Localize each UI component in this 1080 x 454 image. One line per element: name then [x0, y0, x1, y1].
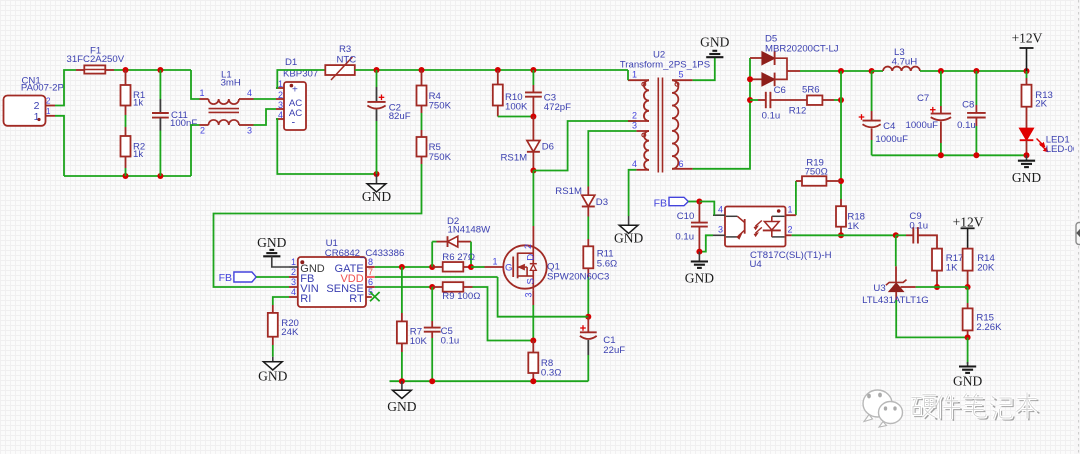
junction dot: [747, 76, 753, 82]
junction dot: [893, 232, 899, 238]
wire FB flag to U1 pin2: [256, 276, 289, 278]
resistor R12: [789, 85, 841, 117]
capacitor C9: [896, 211, 937, 249]
resistor R15: [963, 287, 1002, 337]
resistor R17: [932, 249, 963, 287]
svg-text:10K: 10K: [410, 336, 428, 347]
wire U3 anode to R15 bottom: [896, 300, 967, 337]
ground GND transformer pin4: [614, 216, 643, 246]
junction dot: [696, 249, 702, 255]
junction dot: [530, 378, 536, 384]
junction dot: [1024, 152, 1030, 158]
net flag FB: [654, 197, 689, 209]
svg-text:1: 1: [493, 256, 498, 266]
wire +12V output rail: [941, 70, 1027, 72]
svg-text:C4: C4: [883, 121, 896, 132]
svg-text:3: 3: [247, 126, 252, 136]
transformer U2: [620, 50, 710, 173]
wire R20 to ground: [272, 345, 274, 357]
wire primary ground rail: [390, 380, 589, 382]
wire U1 GATE row: [375, 266, 432, 268]
resistor R1: [121, 70, 146, 115]
power flag +12V mid: [953, 215, 984, 252]
junction dot: [938, 152, 944, 158]
resistor R11: [583, 239, 617, 277]
watermark WeChat logo: [863, 390, 903, 427]
capacitor C3: [525, 70, 571, 117]
wire reference row: [916, 286, 968, 288]
wire top bus to L1 pin1: [191, 70, 200, 99]
svg-text:+12V: +12V: [1012, 31, 1043, 46]
svg-text:GND: GND: [685, 271, 714, 286]
svg-text:R9 100Ω: R9 100Ω: [442, 291, 480, 302]
svg-text:1: 1: [632, 70, 637, 80]
wire drain node to Q1 drain: [532, 171, 534, 227]
junction dot: [399, 378, 405, 384]
svg-text:22uF: 22uF: [603, 345, 625, 356]
svg-text:4: 4: [291, 287, 296, 297]
junction dot: [530, 168, 536, 174]
junction dot: [1024, 68, 1030, 74]
svg-text:D1: D1: [285, 57, 297, 68]
inductor L3: [872, 47, 941, 71]
junction dot: [429, 264, 435, 270]
resistor R7 gate pulldown: [397, 267, 428, 381]
svg-text:FB: FB: [654, 197, 667, 209]
svg-text:3: 3: [524, 292, 534, 297]
svg-text:1000uF: 1000uF: [906, 120, 939, 131]
wire D3 to R11: [587, 217, 589, 240]
junction dot: [468, 264, 474, 270]
shunt regulator U3: [862, 235, 929, 306]
junction dot: [495, 67, 501, 73]
svg-text:1: 1: [788, 205, 793, 215]
svg-text:24K: 24K: [281, 327, 299, 338]
resistor R9: [432, 282, 480, 302]
junction dot: [399, 264, 405, 270]
svg-text:GND: GND: [257, 235, 286, 250]
wire R10 to C3 bottom: [498, 116, 534, 118]
svg-text:U4: U4: [750, 259, 763, 270]
svg-text:GND: GND: [387, 399, 416, 414]
capacitor C10: [675, 202, 707, 252]
svg-text:2: 2: [46, 97, 51, 106]
svg-text:750Ω: 750Ω: [805, 167, 828, 178]
diode D3: [555, 186, 608, 217]
svg-text:3: 3: [291, 277, 296, 287]
resistor R8: [528, 341, 561, 382]
svg-text:SPW20N60C3: SPW20N60C3: [547, 272, 609, 283]
wire R9 to source node: [473, 287, 534, 341]
svg-text:G: G: [505, 262, 512, 273]
wire CN1 pin2 to fuse F1: [55, 70, 76, 106]
svg-text:-: -: [292, 117, 296, 129]
capacitor C1: [580, 317, 625, 382]
svg-text:1k: 1k: [133, 149, 143, 160]
wire bottom AC rail: [64, 175, 191, 177]
wire R1 to R2: [125, 115, 127, 127]
svg-text:3mH: 3mH: [221, 78, 241, 89]
junction dot: [374, 67, 380, 73]
svg-text:4: 4: [278, 110, 283, 120]
svg-text:2: 2: [632, 110, 637, 120]
svg-text:472pF: 472pF: [544, 102, 571, 113]
transistor Q1: [493, 244, 610, 298]
junction dot: [965, 284, 971, 290]
junction dot: [374, 171, 380, 177]
ground GND R20: [258, 357, 287, 384]
capacitor C6: [750, 85, 807, 121]
optocoupler U4: [713, 205, 832, 271]
svg-text:CT817C(SL)(T1)-H: CT817C(SL)(T1)-H: [750, 250, 832, 261]
wire R5 to U1 VIN: [214, 164, 422, 287]
svg-text:RS1M: RS1M: [501, 153, 528, 164]
resistor R13: [1022, 71, 1053, 128]
junction dot: [530, 338, 536, 344]
wire D1 minus to primary GND rail: [276, 119, 377, 174]
junction dot: [123, 173, 129, 179]
LED LED1: [1020, 128, 1080, 155]
junction dot: [838, 68, 844, 74]
ground GND U3: [953, 337, 982, 388]
svg-text:FB: FB: [219, 272, 232, 284]
svg-text:0.1u: 0.1u: [762, 111, 781, 122]
capacitor C2: [367, 70, 410, 122]
fuse F1: [67, 46, 125, 74]
watermark text: [912, 393, 1040, 421]
svg-text:4: 4: [632, 159, 637, 169]
junction dot: [419, 67, 425, 73]
svg-text:3: 3: [632, 121, 637, 131]
wire R4 to R5: [421, 113, 423, 130]
ic U1 CR6842: [289, 238, 404, 307]
junction dot: [838, 232, 844, 238]
junction dot: [429, 284, 435, 290]
junction dot: [585, 314, 591, 320]
resistor R5: [417, 130, 452, 164]
svg-text:+12V: +12V: [953, 215, 984, 230]
net flag FB at U1: [219, 272, 257, 284]
svg-text:0.1u: 0.1u: [957, 120, 976, 131]
capacitor C8: [957, 71, 986, 155]
svg-text:S: S: [526, 278, 537, 284]
resistor R4: [417, 70, 452, 113]
svg-text:U3: U3: [873, 283, 885, 294]
diode D2: [432, 216, 491, 267]
junction dot: [157, 67, 163, 73]
wire FB node to U4 pin4: [699, 202, 714, 216]
svg-text:R6 27Ω: R6 27Ω: [442, 252, 475, 263]
ground GND primary: [362, 174, 391, 204]
svg-text:0.1u: 0.1u: [675, 231, 694, 242]
wire transformer pin5 to ground: [693, 58, 715, 81]
ui panel edge: [1074, 0, 1080, 454]
svg-text:0.1u: 0.1u: [441, 336, 460, 347]
svg-text:1000uF: 1000uF: [875, 134, 908, 145]
wire U1 VDD row: [375, 276, 498, 278]
svg-text:3: 3: [718, 225, 723, 235]
svg-text:2: 2: [278, 90, 283, 100]
connector CN1: [4, 76, 64, 126]
svg-text:2.26K: 2.26K: [976, 322, 1002, 333]
capacitor C4: [859, 71, 908, 155]
wire L1 pin3 to D1 pin3: [254, 109, 277, 125]
svg-text:GND: GND: [362, 189, 391, 204]
wire D5 output to L3: [800, 70, 872, 72]
wire R2 to bottom AC rail: [125, 168, 127, 176]
svg-text:C7: C7: [917, 93, 929, 104]
wire top AC bus: [114, 69, 191, 71]
svg-text:GND: GND: [1012, 170, 1041, 185]
svg-text:31FC2A250V: 31FC2A250V: [67, 54, 125, 65]
svg-text:20K: 20K: [977, 262, 995, 273]
svg-text:5.6Ω: 5.6Ω: [597, 259, 618, 270]
wire U1 RI to R20: [273, 297, 289, 305]
wire D1 plus output to R3: [276, 70, 325, 88]
svg-text:6: 6: [368, 277, 373, 287]
junction dot: [157, 173, 163, 179]
svg-text:3: 3: [278, 100, 283, 110]
wire transformer pin3 to D3: [588, 131, 636, 187]
resistor R6: [432, 252, 475, 272]
svg-text:RS1M: RS1M: [555, 186, 582, 197]
wire transformer pin6 to rectifier D5: [693, 58, 750, 169]
svg-text:C10: C10: [677, 211, 695, 222]
svg-text:1: 1: [291, 257, 296, 267]
wire U1 SENSE row: [375, 286, 432, 288]
svg-text:C6: C6: [774, 85, 786, 96]
svg-text:1K: 1K: [847, 221, 859, 232]
wire bottom AC rail to L1 pin2: [191, 125, 200, 176]
wire transformer pin4 to ground: [629, 170, 637, 216]
svg-text:6: 6: [679, 159, 684, 169]
svg-text:82uF: 82uF: [389, 111, 411, 122]
svg-text:D3: D3: [596, 197, 608, 208]
bridge rectifier D1: [276, 57, 318, 130]
wire R11 to VDD node: [587, 277, 589, 317]
svg-text:2K: 2K: [1035, 99, 1047, 110]
resistor R10: [493, 70, 528, 117]
junction dot: [429, 378, 435, 384]
resistor R18: [836, 199, 865, 235]
wire secondary ground rail: [872, 154, 1027, 156]
svg-text:PA007-2P: PA007-2P: [21, 82, 64, 93]
wire CN1 pin1 to bottom AC rail: [55, 116, 64, 176]
resistor R2: [121, 127, 146, 168]
wire U4 pin3 to C10 ground: [699, 235, 713, 251]
thermistor R3 NTC: [325, 44, 356, 80]
svg-text:GND: GND: [953, 374, 982, 389]
svg-text:750K: 750K: [429, 152, 452, 163]
junction dot: [696, 199, 702, 205]
svg-text:1K: 1K: [946, 262, 958, 273]
svg-text:C8: C8: [962, 100, 974, 111]
svg-text:1: 1: [278, 79, 283, 89]
svg-text:1: 1: [46, 107, 51, 116]
dual diode D5: [750, 34, 839, 87]
svg-text:GND: GND: [258, 369, 287, 384]
svg-text:0.1u: 0.1u: [909, 220, 928, 231]
svg-text:D6: D6: [542, 142, 554, 153]
junction dot: [973, 152, 979, 158]
wire U1 pin1 to GND flag: [272, 256, 289, 267]
junction dot: [973, 68, 979, 74]
junction dot: [934, 284, 940, 290]
resistor R14: [963, 249, 996, 287]
svg-text:1k: 1k: [133, 98, 143, 109]
svg-text:100nF: 100nF: [170, 118, 197, 129]
wire top bus to C11: [159, 70, 161, 99]
wire output node down to R18: [840, 71, 842, 199]
svg-text:MBR20200CT-LJ: MBR20200CT-LJ: [765, 43, 839, 54]
resistor R20: [268, 305, 299, 345]
svg-text:5R6: 5R6: [802, 85, 820, 96]
svg-text:100K: 100K: [505, 102, 528, 113]
svg-text:D: D: [526, 254, 537, 261]
capacitor C5: [424, 287, 459, 381]
svg-text:2: 2: [291, 267, 296, 277]
junction dot: [869, 68, 875, 74]
svg-text:1: 1: [34, 111, 40, 123]
junction dot: [838, 97, 844, 103]
svg-text:750K: 750K: [429, 101, 452, 112]
junction dot: [530, 67, 536, 73]
svg-text:+: +: [292, 85, 298, 96]
wire U4 pin2 feedback row: [792, 234, 896, 236]
wire HV bus to transformer pin1: [627, 70, 629, 80]
svg-text:CR6842_C433386: CR6842_C433386: [325, 248, 404, 259]
diode D6: [501, 117, 554, 171]
wire C2 to primary GND rail: [376, 121, 378, 174]
junction dot: [838, 178, 844, 184]
svg-text:4: 4: [247, 88, 252, 98]
wire FB to C10: [688, 201, 699, 203]
svg-text:RI: RI: [300, 293, 311, 305]
capacitor C11: [152, 99, 197, 131]
svg-text:5: 5: [679, 70, 684, 80]
junction dot: [965, 334, 971, 340]
svg-text:R12: R12: [789, 106, 807, 117]
junction dot: [747, 97, 753, 103]
inductor L1: [200, 70, 254, 136]
wire L1 pin4 to D1 pin2: [254, 98, 277, 100]
junction dot: [123, 67, 129, 73]
wire gate to Q1: [471, 266, 485, 268]
junction dot: [938, 68, 944, 74]
wire C11 to bottom AC rail: [159, 131, 161, 177]
svg-text:RT: RT: [349, 293, 364, 305]
svg-text:2: 2: [788, 225, 793, 235]
svg-text:4: 4: [718, 205, 723, 215]
svg-text:0.3Ω: 0.3Ω: [541, 368, 562, 379]
ground GND output: [1012, 155, 1041, 185]
svg-text:2: 2: [523, 244, 533, 249]
svg-text:1N4148W: 1N4148W: [448, 225, 492, 236]
svg-text:NTC: NTC: [337, 54, 357, 65]
svg-text:1: 1: [200, 88, 205, 98]
resistor R19: [796, 158, 841, 216]
wire Q1 source down: [532, 290, 534, 305]
power flag +12V output: [1012, 31, 1043, 72]
svg-text:2: 2: [200, 126, 205, 136]
net flag GND above U1: [257, 235, 286, 256]
ground GND primary rail: [387, 381, 416, 414]
capacitor C7: [906, 71, 952, 155]
svg-text:4.7uH: 4.7uH: [892, 57, 918, 68]
svg-text:GND: GND: [614, 231, 643, 246]
ground GND secondary top: [700, 35, 729, 58]
wire HV bus: [355, 69, 628, 71]
wire drain node to transformer pin2: [533, 121, 636, 171]
svg-text:7: 7: [368, 267, 373, 277]
svg-text:GND: GND: [700, 35, 729, 50]
junction dot: [530, 114, 536, 120]
ground GND C10: [685, 252, 714, 286]
